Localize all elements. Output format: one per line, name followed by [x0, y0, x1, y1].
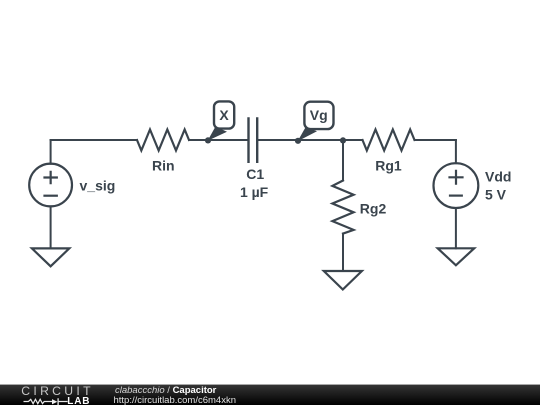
svg-text:Vdd: Vdd [485, 169, 511, 185]
voltage source V1 v_sig circle [29, 164, 72, 207]
Vdd minus sign [449, 195, 463, 197]
wire junction down to Rg2 [342, 140, 344, 181]
ground GND3 (Rg2) [324, 271, 362, 290]
svg-text:1 µF: 1 µF [240, 184, 269, 200]
node X callout tail [208, 127, 227, 141]
voltage source V2 Vdd circle [434, 163, 479, 208]
wire Rg2 to ground [342, 234, 344, 271]
ground GND2 (Vdd) [438, 248, 475, 265]
node Vg callout tail [298, 127, 317, 141]
svg-text:X: X [219, 107, 229, 123]
v_sig minus sign [43, 195, 58, 197]
node dot Vg [295, 138, 301, 144]
svg-text:Vg: Vg [310, 107, 328, 123]
wire capacitor to Rg1 [257, 139, 362, 141]
node Vg callout box [304, 102, 333, 129]
footer url line [114, 395, 237, 405]
resistor Rg1 [363, 130, 415, 151]
svg-text:Rg1: Rg1 [375, 158, 402, 174]
svg-text:v_sig: v_sig [80, 178, 116, 194]
CircuitLab logo schematic line + LAB [0, 385, 92, 405]
logo diode [52, 399, 57, 404]
wire main horizontal left segment [51, 139, 137, 141]
svg-text:Rin: Rin [152, 158, 175, 174]
wire Rg1 to Vdd corner [415, 139, 456, 141]
svg-text:5 V: 5 V [485, 187, 507, 203]
wire Rin to capacitor [189, 139, 248, 141]
wire down to Vdd source [455, 140, 457, 163]
footer bar [0, 384, 540, 405]
v_sig plus sign [43, 171, 58, 185]
node dot X [205, 137, 211, 143]
CircuitLab logo wordmark [21, 384, 94, 398]
wire from main node to v_sig top [50, 140, 52, 164]
junction dot Rg2/Rg1 [340, 137, 346, 143]
capacitor C1 plates [249, 117, 258, 163]
svg-text:Rg2: Rg2 [360, 201, 387, 217]
wire Vdd bottom to ground [455, 208, 457, 248]
footer title line [115, 385, 216, 396]
resistor Rin [137, 130, 189, 151]
Vdd plus sign [448, 170, 463, 185]
svg-text:C1: C1 [246, 166, 264, 182]
resistor Rg2 [332, 181, 353, 234]
logo resistor zigzag [24, 399, 53, 403]
node X callout box [214, 101, 234, 128]
wire v_sig bottom to ground [50, 206, 52, 248]
ground GND1 (v_sig) [32, 248, 69, 266]
